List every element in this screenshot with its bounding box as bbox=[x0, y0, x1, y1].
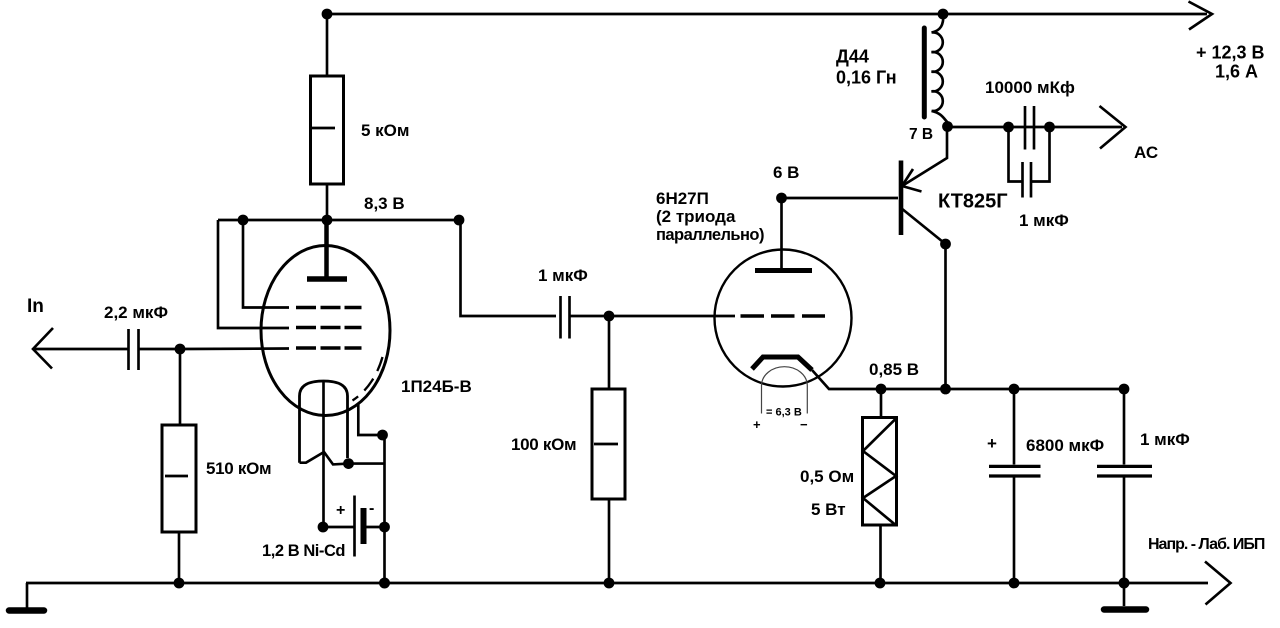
svg-text:АС: АС bbox=[1134, 143, 1158, 162]
node anode V2 bbox=[776, 193, 787, 204]
svg-text:6 В: 6 В bbox=[773, 163, 799, 182]
wire rail to C 1uF out bbox=[1123, 389, 1126, 465]
ground symbol right bbox=[1123, 583, 1126, 606]
svg-text:1 мкФ: 1 мкФ bbox=[538, 266, 588, 285]
wire coupling cap branch bbox=[459, 220, 556, 316]
node collector corner bbox=[940, 239, 951, 250]
wire top +12V rail bbox=[327, 13, 1207, 16]
svg-text:2,2 мкФ: 2,2 мкФ bbox=[104, 303, 168, 322]
node 6800uF rail bbox=[1009, 384, 1020, 395]
resistor 0,5 Ohm 5W bbox=[863, 418, 897, 526]
transistor KT825G base bar bbox=[899, 161, 904, 236]
svg-text:0,5 Ом: 0,5 Ом bbox=[800, 467, 854, 486]
tube V1 filament cup bbox=[300, 381, 348, 463]
svg-text:1 мкФ: 1 мкФ bbox=[1140, 430, 1190, 449]
ground symbol left bbox=[26, 583, 29, 609]
svg-text:0,16 Гн: 0,16 Гн bbox=[836, 68, 897, 88]
svg-text:1П24Б-В: 1П24Б-В bbox=[401, 377, 472, 396]
wire tube V1 envelope pin bbox=[358, 403, 382, 435]
svg-text:Напр. - Лаб. ИБП: Напр. - Лаб. ИБП bbox=[1148, 536, 1265, 553]
svg-text:7 В: 7 В bbox=[909, 126, 933, 143]
wire parallel cap right drop bbox=[1032, 127, 1050, 182]
wire grid1 lead of tube V1 bbox=[243, 220, 289, 308]
tube V1 envelope 1P24B-V bbox=[261, 246, 390, 416]
node 8,3V left grid lead bbox=[238, 215, 249, 226]
node ground 510k bbox=[174, 578, 185, 589]
wire rail to C 6800uF bbox=[1013, 389, 1016, 465]
node 1uF rail bbox=[1119, 384, 1130, 395]
node cap bank right bbox=[1044, 122, 1055, 133]
capacitor 10000 uF bbox=[1024, 106, 1027, 150]
node battery plus bbox=[318, 522, 329, 533]
svg-text:+: + bbox=[753, 417, 761, 432]
wire from top rail to R 5k bbox=[326, 14, 329, 76]
resistor 510 kOhm bbox=[162, 425, 196, 532]
svg-text:Д44: Д44 bbox=[836, 47, 869, 67]
svg-text:1 мкФ: 1 мкФ bbox=[1019, 211, 1069, 230]
wire grid3 lead of tube V1 bbox=[180, 347, 289, 350]
svg-text:5 Вт: 5 Вт bbox=[811, 500, 846, 519]
heater dome bbox=[762, 367, 808, 414]
wire grid2 lead of tube V1 bbox=[218, 220, 289, 328]
arrowhead In bbox=[33, 328, 53, 369]
resistor 5 kOhm bbox=[311, 76, 344, 184]
svg-text:параллельно): параллельно) bbox=[656, 226, 764, 244]
svg-text:510 кОм: 510 кОм bbox=[206, 459, 271, 478]
svg-text:In: In bbox=[27, 296, 44, 317]
wire node to R 100k bbox=[608, 316, 611, 389]
arrowhead AC bbox=[1100, 106, 1126, 149]
tube V2 grid dashes bbox=[741, 314, 826, 317]
node collector rail bbox=[940, 384, 951, 395]
node battery minus bbox=[379, 522, 390, 533]
svg-text:(2 триода: (2 триода bbox=[656, 207, 736, 226]
wire 0,85V rail bbox=[881, 388, 1124, 391]
svg-text:8,3 В: 8,3 В bbox=[364, 194, 405, 213]
transistor collector bbox=[901, 208, 946, 244]
wire battery minus lead bbox=[364, 526, 386, 529]
svg-text:0,85 В: 0,85 В bbox=[869, 360, 919, 379]
tube V2 cathode bbox=[752, 357, 812, 370]
capacitor 6800 uF bbox=[989, 465, 1041, 468]
arrowhead ground rail right bbox=[1205, 562, 1231, 605]
battery 1,2V short plate bbox=[361, 508, 367, 544]
node 7V bbox=[942, 121, 953, 132]
transistor emitter bbox=[902, 127, 947, 186]
tube V2 anode bbox=[755, 268, 812, 273]
capacitor 1 uF out bbox=[1097, 465, 1152, 468]
node ground 100k bbox=[604, 578, 615, 589]
tube V1 grid row2 bbox=[296, 326, 362, 329]
wire C 1uF to ground rail bbox=[1123, 477, 1126, 583]
resistor 100 kOhm bbox=[592, 389, 625, 499]
capacitor 2,2 uF bbox=[127, 329, 130, 370]
svg-text:−: − bbox=[800, 417, 808, 432]
wire R 100k to ground rail bbox=[608, 499, 611, 583]
svg-text:+: + bbox=[987, 434, 997, 453]
svg-text:КТ825Г: КТ825Г bbox=[938, 191, 1008, 213]
wire ground rail bbox=[26, 582, 1208, 585]
wire pin down to battery minus bbox=[383, 435, 386, 583]
svg-text:5 кОм: 5 кОм bbox=[361, 121, 410, 140]
wire 7V to AC arrow bbox=[948, 126, 1123, 129]
wire battery plus lead bbox=[323, 526, 355, 529]
wire rail to R 0,5 Ohm bbox=[880, 389, 883, 418]
svg-text:-: - bbox=[369, 500, 374, 517]
wire C2,2 to node bbox=[139, 348, 181, 351]
wire filament right to vertical bbox=[349, 462, 385, 465]
transistor emitter arrow bbox=[902, 169, 922, 192]
wire 8,3V horizontal bbox=[218, 219, 460, 222]
svg-text:= 6,3 В: = 6,3 В bbox=[766, 407, 802, 419]
tube V1 anode bbox=[307, 276, 347, 282]
wire filament center stem bbox=[322, 381, 325, 527]
wire cap to node bbox=[570, 315, 610, 318]
arrowhead +12,3V output bbox=[1189, 2, 1213, 30]
svg-text:1,2 В Ni-Cd: 1,2 В Ni-Cd bbox=[262, 542, 345, 560]
node input grid bbox=[175, 344, 186, 355]
wire R 510k to ground rail bbox=[178, 532, 181, 583]
node 8,3V right to coupling cap bbox=[454, 215, 465, 226]
tube V1 grid row3 bbox=[296, 346, 362, 349]
node ground 6800uF bbox=[1009, 578, 1020, 589]
wire collector down bbox=[944, 244, 947, 389]
svg-text:6Н27П: 6Н27П bbox=[656, 189, 709, 208]
choke D44 core bbox=[922, 28, 927, 117]
wire R 0,5 to ground rail bbox=[879, 525, 882, 583]
node 8,3V anode bbox=[322, 215, 333, 226]
svg-text:+ 12,3 В: + 12,3 В bbox=[1196, 43, 1265, 63]
tube V1 grid row1 bbox=[296, 306, 362, 309]
node filament right bbox=[343, 458, 354, 469]
wire base V2 anode to transistor bbox=[782, 197, 899, 200]
wire cathode lead bbox=[812, 370, 881, 389]
node ground 1uF bbox=[1119, 578, 1130, 589]
node cathode rail bbox=[876, 384, 887, 395]
node top rail at 5k resistor bbox=[322, 9, 333, 20]
battery 1,2V long plate bbox=[353, 496, 356, 557]
svg-text:1,6 А: 1,6 А bbox=[1215, 62, 1258, 82]
node ground 0,5 Ohm bbox=[875, 578, 886, 589]
svg-text:+: + bbox=[336, 502, 345, 519]
wire R 5k to 8,3V node bbox=[326, 184, 329, 220]
capacitor 1 uF parallel bbox=[1021, 162, 1024, 198]
node top rail at choke bbox=[938, 9, 949, 20]
wire node to R 510k bbox=[179, 349, 182, 425]
capacitor 1 uF coupling bbox=[559, 296, 562, 339]
svg-text:6800 мкФ: 6800 мкФ bbox=[1026, 436, 1104, 455]
tube V2 envelope 6N27P bbox=[715, 250, 852, 387]
choke D44 winding bbox=[932, 14, 948, 122]
node cap bank left bbox=[1003, 122, 1014, 133]
tube V1 filament vee bbox=[300, 452, 349, 464]
node pin corner bbox=[377, 430, 388, 441]
node ground battery bbox=[379, 578, 390, 589]
node grid V2 bbox=[604, 311, 615, 322]
svg-text:100 кОм: 100 кОм bbox=[511, 435, 576, 454]
tube V1 inner dashed arc bbox=[353, 357, 383, 401]
svg-text:10000 мКф: 10000 мКф bbox=[985, 78, 1075, 97]
wire In to C 2,2uF bbox=[33, 348, 128, 351]
wire node to tube V2 grid bbox=[609, 315, 735, 318]
wire C 6800 to ground rail bbox=[1013, 477, 1016, 583]
wire parallel cap left drop bbox=[1009, 127, 1023, 182]
